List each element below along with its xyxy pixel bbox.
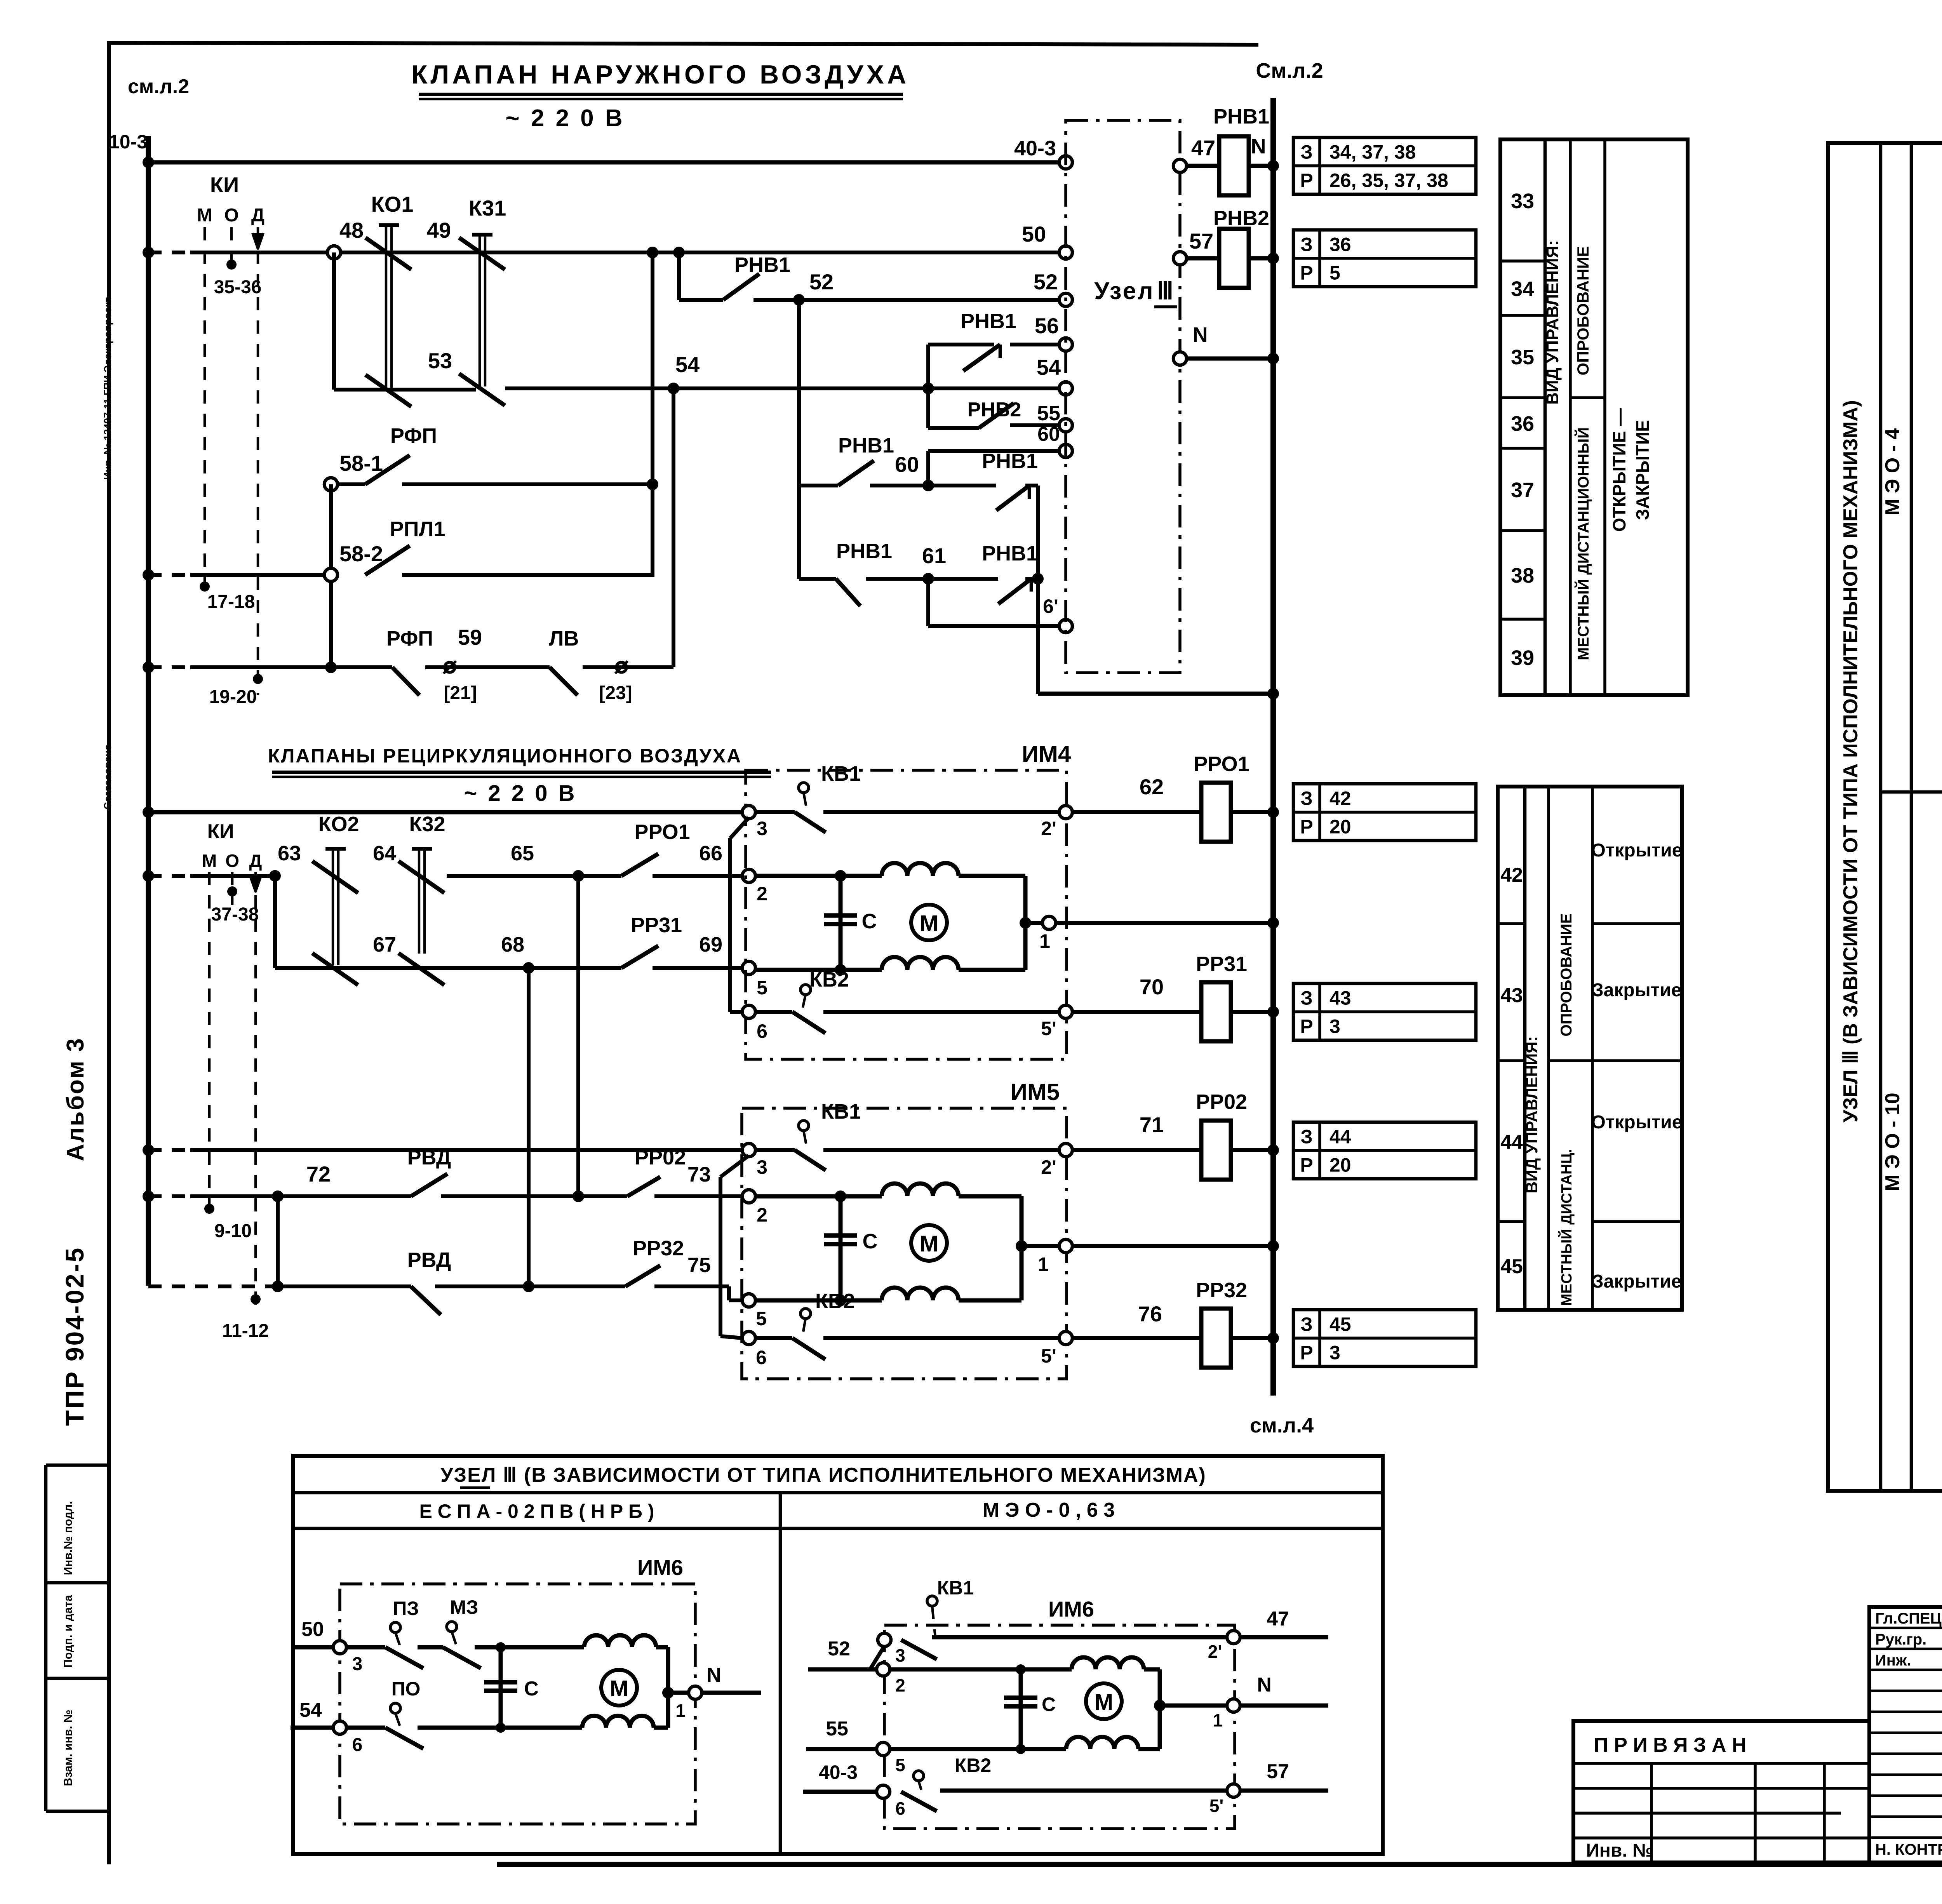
motor М ИМ4: [911, 905, 947, 940]
svg-text:62: 62: [1140, 774, 1164, 799]
signature table frame: [1869, 1607, 1942, 1862]
svg-text:Р: Р: [1300, 170, 1313, 191]
svg-text:МЕСТНЫЙ ДИСТАНЦИОННЫЙ: МЕСТНЫЙ ДИСТАНЦИОННЫЙ: [1574, 427, 1592, 660]
junction 61: [922, 573, 934, 585]
svg-text:2': 2': [1041, 818, 1056, 839]
wire РРЗ1 to trunk: [1231, 1010, 1273, 1014]
svg-text:68: 68: [501, 933, 524, 956]
svg-text:57: 57: [1267, 1760, 1289, 1783]
wire 57 row (МЭО-0,63): [940, 1789, 1227, 1793]
contact ПЗ (ЕСПА): [390, 1622, 400, 1632]
svg-text:Д: Д: [251, 205, 265, 226]
contact РНВ1 (61 left): [836, 579, 860, 606]
contact К32: [412, 847, 432, 851]
contact РНВ2 (55): [979, 403, 1014, 428]
svg-text:20: 20: [1329, 1154, 1351, 1176]
svg-text:КИ: КИ: [207, 820, 234, 843]
svg-text:РНВ1: РНВ1: [836, 540, 892, 563]
svg-text:1: 1: [1039, 930, 1050, 952]
svg-text:О: О: [225, 851, 239, 871]
junction node1b (МЭО-0,63): [1154, 1700, 1166, 1711]
junction 58/59 vertical: [325, 661, 337, 673]
svg-text:54: 54: [675, 352, 700, 377]
svg-text:ИМ6: ИМ6: [1048, 1597, 1094, 1621]
node 1 ИМ5: [1059, 1239, 1072, 1253]
node bus/59: [143, 661, 154, 673]
corner to node1 (ЕСПА): [656, 1645, 668, 1650]
svg-text:З: З: [1300, 141, 1312, 163]
motor М ИМ5: [911, 1225, 947, 1261]
svg-text:З: З: [1300, 1314, 1312, 1335]
svg-text:УЗЕЛ Ⅲ (В ЗАВИСИМОСТИ ОТ ТИПА: УЗЕЛ Ⅲ (В ЗАВИСИМОСТИ ОТ ТИПА ИСПОЛНИТЕЛ…: [1839, 400, 1862, 1123]
node 6 (МЭО-0,63): [877, 1785, 890, 1798]
svg-text:N: N: [1257, 1674, 1272, 1696]
svg-text:70: 70: [1140, 975, 1164, 999]
wire 72 mid: [278, 1194, 411, 1198]
svg-text:РФП: РФП: [386, 627, 433, 650]
contact КВ1 (МЭО-0,63): [927, 1596, 937, 1606]
wire 71 to coil: [1072, 1148, 1202, 1152]
winding upper ИМ5: [882, 1183, 959, 1196]
svg-text:67: 67: [373, 933, 396, 956]
node 5 ИМ5: [742, 1294, 755, 1307]
jumper 3-6 ИМ5 diagonal: [720, 1156, 749, 1177]
svg-text:3: 3: [352, 1654, 363, 1674]
wire row 48-49-50: [148, 251, 190, 254]
contact РНВ1 (56): [963, 345, 1000, 371]
node 40-3 terminal: [1059, 156, 1072, 169]
wire row2 ИМ5 winding: [755, 1194, 840, 1199]
svg-text:50: 50: [1022, 222, 1046, 246]
svg-text:Альбом 3: Альбом 3: [62, 1037, 89, 1161]
svg-text:35: 35: [1511, 346, 1534, 369]
svg-text:55: 55: [1037, 402, 1060, 425]
table1 column 3 line: [1603, 139, 1606, 695]
svg-text:КВ2: КВ2: [955, 1754, 991, 1776]
ИМ4 dash-dot box: [746, 770, 1067, 1059]
svg-text:N: N: [706, 1664, 721, 1686]
node 3 ИМ4: [742, 806, 755, 819]
arrow on Д column 2: [250, 876, 261, 891]
wire node1 ИМ5: [1021, 1244, 1059, 1248]
svg-text:48: 48: [339, 218, 364, 242]
wire 61 mid: [866, 577, 928, 581]
svg-text:65: 65: [511, 842, 534, 865]
svg-text:С: С: [524, 1678, 539, 1700]
contact КО2: [325, 847, 346, 851]
contact ПО (ЕСПА): [390, 1703, 400, 1713]
svg-text:КЛАПАН НАРУЖНОГО ВОЗДУХА: КЛАПАН НАРУЖНОГО ВОЗДУХА: [411, 60, 909, 89]
svg-text:КВ2: КВ2: [815, 1290, 855, 1313]
vertical 65 down to 72 row: [576, 876, 580, 1196]
svg-text:57: 57: [1189, 229, 1213, 253]
wire 47 row (МЭО-0,63): [932, 1635, 1234, 1639]
junction cap top (ЕСПА): [496, 1642, 506, 1652]
wire 58-1 to vert: [402, 482, 653, 486]
node 5 ИМ4: [742, 961, 755, 975]
svg-text:П Р И В Я З А Н: П Р И В Я З А Н: [1594, 1734, 1746, 1756]
svg-text:РР02: РР02: [1196, 1090, 1247, 1114]
svg-text:З: З: [1300, 788, 1312, 809]
node bus/220V: [143, 806, 154, 818]
table1 col3 divider: [1570, 396, 1605, 399]
wire 220V bus to ИМ4 pin3: [148, 810, 742, 815]
junction cap bottom (ЕСПА): [496, 1723, 506, 1733]
contact РФП (59): [392, 667, 419, 695]
svg-text:РВД: РВД: [407, 1248, 451, 1272]
title underline 2: [272, 771, 771, 774]
junction 60: [922, 480, 934, 491]
node 58-2 terminal: [324, 568, 338, 581]
svg-text:49: 49: [427, 218, 451, 242]
svg-text:36: 36: [1511, 412, 1534, 435]
wire 71 row: [148, 1148, 190, 1152]
coil РРЗ1: [1201, 982, 1231, 1041]
contact КО1: [379, 223, 399, 227]
svg-text:КО1: КО1: [371, 192, 414, 216]
wire row5 ИМ5 winding: [755, 1298, 840, 1303]
svg-text:К32: К32: [409, 813, 445, 836]
junction 58-1: [647, 479, 658, 490]
wire 59 РФП row: [148, 665, 190, 669]
node 55 terminal: [1059, 419, 1072, 432]
junction 1/trunk ИМ4: [1267, 917, 1279, 929]
junction 68: [523, 962, 534, 974]
node 56 terminal: [1059, 338, 1072, 351]
svg-text:С: С: [862, 910, 877, 933]
svg-text:ЗАКРЫТИЕ: ЗАКРЫТИЕ: [1632, 420, 1653, 520]
svg-text:М: М: [610, 1676, 628, 1701]
right box column 3: [1910, 143, 1913, 1491]
МЭО-0,63 ИМ6 dash-dot box: [884, 1625, 1235, 1829]
svg-text:56: 56: [1035, 313, 1059, 338]
wire 72 row: [148, 1194, 190, 1198]
wire 65: [447, 874, 621, 878]
connector [23]: [616, 662, 626, 672]
vertical 61 to 6' row: [926, 579, 930, 626]
svg-text:Р: Р: [1300, 262, 1313, 284]
svg-text:3: 3: [895, 1645, 905, 1666]
wire 59 right: [583, 665, 673, 669]
border frame left edge: [107, 41, 111, 1864]
svg-text:44: 44: [1329, 1126, 1351, 1148]
svg-text:33: 33: [1511, 190, 1534, 213]
wire 75 mid: [278, 1284, 411, 1288]
left margin small box: [46, 1464, 108, 1467]
svg-text:Рук.гр.: Рук.гр.: [1875, 1631, 1926, 1648]
wire 70 row: [823, 1010, 1066, 1014]
svg-text:Открытие: Открытие: [1591, 1112, 1683, 1133]
svg-text:Е С П А - 0 2 П В ( Н Р Б ): Е С П А - 0 2 П В ( Н Р Б ): [419, 1500, 654, 1522]
junction 75/vert68: [523, 1281, 534, 1292]
svg-text:К31: К31: [469, 196, 506, 220]
svg-text:6: 6: [352, 1735, 363, 1755]
КИ2 column М dashed: [208, 872, 211, 1220]
svg-text:44: 44: [1500, 1131, 1523, 1154]
svg-text:Инв.№ подл.: Инв.№ подл.: [62, 1501, 75, 1575]
svg-text:3: 3: [757, 1156, 767, 1178]
wire 6' row: [928, 624, 1066, 628]
wire 75 to РРЗ2: [529, 1284, 625, 1288]
svg-text:39: 39: [1511, 646, 1534, 670]
contact ЛВ: [550, 667, 578, 695]
wire РРЗ2 to trunk: [1231, 1336, 1273, 1340]
svg-text:Инв. №: Инв. №: [1586, 1840, 1653, 1861]
КИ contact column О dashed: [230, 227, 233, 272]
node bus/71: [143, 1144, 154, 1156]
svg-text:РР31: РР31: [631, 914, 682, 937]
wire РРО1 to trunk: [1231, 810, 1273, 814]
motor М (ЕСПА): [601, 1670, 637, 1706]
svg-text:Закрытие: Закрытие: [1592, 1271, 1682, 1292]
right box Узел III frame: [1828, 143, 1942, 1491]
svg-text:58-2: 58-2: [339, 541, 383, 566]
svg-text:Р: Р: [1300, 816, 1313, 838]
svg-text:Ⅲ: Ⅲ: [1157, 278, 1174, 305]
node 9-10 tap: [204, 1204, 214, 1214]
svg-text:ВИД УПРАВЛЕНИЯ:: ВИД УПРАВЛЕНИЯ:: [1523, 1036, 1541, 1194]
svg-text:Открытие: Открытие: [1591, 840, 1683, 861]
wire 60 to corner: [1025, 484, 1038, 487]
svg-text:ИМ5: ИМ5: [1011, 1079, 1060, 1105]
svg-text:Инв. № 12497-11 ГПИ Электропр: Инв. № 12497-11 ГПИ Электропроект: [102, 297, 113, 480]
svg-text:43: 43: [1500, 984, 1523, 1007]
svg-text:61: 61: [922, 543, 946, 568]
junction loop/trunk: [1267, 688, 1279, 700]
contact РНВ1 (60 right): [996, 486, 1029, 510]
ИМ5 dash-dot box: [742, 1108, 1067, 1379]
contact РРЗ2 (75): [625, 1265, 660, 1286]
wire 47 row: [1173, 159, 1187, 172]
wire N row (МЭО-0,63): [1160, 1704, 1227, 1708]
wire 61 row: [799, 577, 836, 581]
contact РРЗ1: [621, 946, 658, 968]
wire row5 (МЭО-0,63): [890, 1747, 1021, 1751]
wire 71 row to 2': [823, 1148, 1066, 1152]
junction 54/vert-B: [668, 383, 679, 394]
right box column 2: [1879, 143, 1883, 1491]
svg-text:2': 2': [1208, 1641, 1222, 1662]
svg-text:Инж.: Инж.: [1875, 1652, 1911, 1669]
svg-text:КО2: КО2: [318, 813, 359, 836]
contact КЗ1: [472, 233, 492, 237]
svg-text:5: 5: [1329, 262, 1340, 284]
capacitor C ИМ5: [839, 1196, 843, 1300]
node 5' ИМ5: [1059, 1331, 1072, 1345]
svg-text:37: 37: [1511, 479, 1534, 502]
svg-text:~ 2 2 0 В: ~ 2 2 0 В: [505, 105, 625, 132]
vertical 56-54 link: [926, 345, 930, 428]
junction 62/trunk: [1267, 806, 1279, 818]
svg-text:РНВ1: РНВ1: [982, 449, 1038, 473]
svg-text:1: 1: [1213, 1710, 1223, 1730]
left bus vertical: [146, 136, 151, 1286]
signature table rows: [1869, 1627, 1942, 1629]
ЕСПА ИМ6 dash-dot box: [340, 1584, 695, 1824]
wire 58-2 РПЛ1 row: [148, 573, 190, 577]
svg-text:26, 35, 37, 38: 26, 35, 37, 38: [1329, 170, 1448, 191]
jumper 52-3 (МЭО-0,63): [870, 1646, 884, 1669]
svg-text:ИМ6: ИМ6: [637, 1555, 683, 1580]
svg-text:6: 6: [756, 1347, 767, 1368]
junction cap bottom ИМ4: [835, 964, 846, 976]
wire 61 to corner: [1025, 577, 1038, 581]
vertical 68 down to 75 row: [527, 968, 531, 1286]
svg-text:см.л.2: см.л.2: [128, 75, 189, 98]
winding upper ИМ4: [882, 863, 959, 876]
wire to cap (ЕСПА): [475, 1645, 501, 1650]
svg-text:~ 2 2 0 В: ~ 2 2 0 В: [464, 781, 577, 806]
connector [21]: [445, 662, 455, 672]
svg-text:С: С: [1042, 1693, 1056, 1715]
title underline: [419, 93, 903, 96]
wire row6 (ЕСПА): [346, 1726, 385, 1730]
node 6' terminal: [1059, 620, 1072, 633]
wire row6 mid (ЕСПА): [418, 1726, 501, 1730]
contact КВ2 ИМ4: [800, 985, 811, 995]
node 11-12 tap: [251, 1294, 261, 1304]
corner node1 (МЭО-0,63): [1158, 1669, 1162, 1749]
wire 60 lower row: [799, 484, 838, 487]
jumper 3-6 ИМ4 diagonal: [730, 818, 749, 838]
wire 73: [654, 1194, 742, 1198]
node 3 ИМ5: [742, 1143, 755, 1157]
node 2 ИМ4: [742, 869, 755, 882]
node 2' ИМ5: [1059, 1143, 1072, 1157]
node 5' ИМ4: [1059, 1005, 1072, 1018]
junction cap top ИМ5: [835, 1190, 846, 1202]
junction 72/vert65: [573, 1190, 584, 1202]
svg-text:ОПРОБОВАНИЕ: ОПРОБОВАНИЕ: [1574, 246, 1592, 376]
svg-text:55: 55: [826, 1718, 848, 1740]
svg-text:76: 76: [1138, 1302, 1162, 1326]
svg-text:54: 54: [1037, 355, 1061, 379]
svg-text:36: 36: [1329, 234, 1351, 256]
cross-ref table З 42: [1293, 784, 1476, 841]
svg-text:РФП: РФП: [390, 424, 437, 447]
table1 column 2 line: [1569, 139, 1572, 695]
svg-text:С: С: [863, 1230, 878, 1253]
capacitor C (МЭО-0,63): [1019, 1669, 1023, 1749]
N trunk vertical: [1270, 98, 1276, 1396]
bottom-left box header divider 2: [293, 1527, 1383, 1530]
table2 col4 row dividers: [1592, 922, 1682, 925]
junction 52/vert-C: [793, 294, 805, 306]
svg-text:М: М: [920, 911, 938, 936]
svg-text:См.л.2: См.л.2: [1256, 59, 1323, 82]
junction 47/trunk: [1267, 160, 1279, 172]
svg-text:2': 2': [1041, 1156, 1056, 1178]
svg-text:ТПР 904-02-5: ТПР 904-02-5: [60, 1246, 89, 1426]
contact РПЛ1: [365, 546, 410, 575]
svg-text:1: 1: [675, 1700, 686, 1721]
node 35-36 tap on О: [226, 259, 237, 270]
svg-text:З: З: [1300, 234, 1312, 256]
svg-text:КЛАПАНЫ РЕЦИРКУЛЯЦИОННОГО ВОЗД: КЛАПАНЫ РЕЦИРКУЛЯЦИОННОГО ВОЗДУХА: [268, 745, 742, 767]
wire 52 row with РНВ1 contact: [679, 298, 723, 302]
wire 75 right: [654, 1284, 729, 1288]
svg-text:40-3: 40-3: [819, 1761, 858, 1783]
svg-text:17-18: 17-18: [207, 592, 255, 612]
svg-text:Подп. и дата: Подп. и дата: [62, 1595, 75, 1668]
vertical 54-to-59 row: [672, 388, 675, 667]
svg-text:58-1: 58-1: [339, 451, 383, 475]
node bus/40-3: [143, 157, 154, 168]
junction N/trunk: [1267, 353, 1279, 364]
junction 71/trunk: [1267, 1144, 1279, 1156]
table2 column 3 line: [1591, 787, 1594, 1310]
svg-text:N: N: [1251, 135, 1266, 158]
contact РВД (75): [411, 1286, 441, 1315]
node bus/72: [143, 1190, 154, 1202]
svg-text:М: М: [202, 851, 217, 871]
svg-text:20: 20: [1329, 816, 1351, 838]
svg-text:[23]: [23]: [599, 683, 632, 703]
winding lower (МЭО-0,63): [1021, 1747, 1066, 1751]
vertical 60-61-loop: [1036, 486, 1040, 694]
svg-text:РР02: РР02: [635, 1146, 686, 1169]
svg-text:РНВ2: РНВ2: [1213, 207, 1269, 230]
vertical 72-75 link: [276, 1196, 280, 1286]
jumper 3-6 ИМ5 vertical: [719, 1177, 722, 1336]
winding upper (ЕСПА): [584, 1635, 656, 1647]
svg-text:ПО: ПО: [392, 1678, 421, 1700]
КИ2 column О dashed: [231, 872, 234, 905]
svg-text:64: 64: [373, 842, 396, 865]
table2 numbers column: [1523, 787, 1527, 1310]
wire row2 (МЭО-0,63): [890, 1667, 1021, 1672]
wire N row: [1173, 352, 1187, 365]
svg-text:МЕСТНЫЙ ДИСТАНЦ.: МЕСТНЫЙ ДИСТАНЦ.: [1557, 1149, 1575, 1306]
Привязан grid: [1573, 1762, 1869, 1765]
junction 61/corner: [1032, 573, 1044, 585]
contact РНВ1 (61 right): [998, 579, 1031, 604]
wire 59 mid: [425, 665, 550, 669]
svg-text:Взам. инв. №: Взам. инв. №: [62, 1710, 75, 1786]
junction cap bottom ИМ5: [835, 1295, 846, 1306]
wire 48 to КО1: [341, 251, 563, 254]
node 19-20 tap on Д: [253, 674, 263, 684]
svg-text:ВИД УПРАВЛЕНИЯ:: ВИД УПРАВЛЕНИЯ:: [1543, 240, 1562, 405]
border frame bottom edge: [497, 1862, 1942, 1867]
cross-ref table З 45: [1293, 1310, 1476, 1366]
svg-text:РНВ1: РНВ1: [982, 542, 1038, 565]
node 50 terminal on Узел III: [1059, 246, 1072, 259]
svg-text:5': 5': [1041, 1345, 1056, 1367]
svg-text:52: 52: [809, 270, 834, 294]
wire 66: [653, 874, 742, 878]
svg-text:43: 43: [1329, 987, 1351, 1009]
wire 53 row: [332, 252, 336, 390]
wire 56 row: [928, 343, 994, 346]
svg-text:МЗ: МЗ: [450, 1596, 479, 1618]
svg-text:М: М: [920, 1231, 938, 1257]
winding lower ИМ4: [882, 957, 959, 970]
svg-text:М Э О - 10: М Э О - 10: [1881, 1093, 1904, 1191]
junction 75: [272, 1281, 284, 1292]
svg-text:М Э О - 0 , 6 3: М Э О - 0 , 6 3: [983, 1499, 1115, 1521]
junction node1 ИМ5: [1016, 1240, 1027, 1252]
svg-text:РНВ1: РНВ1: [961, 310, 1016, 333]
svg-text:Гл.СПЕЦ.: Гл.СПЕЦ.: [1875, 1610, 1942, 1627]
svg-text:2: 2: [757, 883, 767, 905]
junction cap top ИМ4: [835, 870, 846, 882]
svg-text:73: 73: [687, 1163, 711, 1186]
svg-text:УЗЕЛ Ⅲ (В ЗАВИСИМОСТИ ОТ ТИПА: УЗЕЛ Ⅲ (В ЗАВИСИМОСТИ ОТ ТИПА ИСПОЛНИТЕЛ…: [440, 1464, 1206, 1486]
Привязан box frame: [1573, 1721, 1869, 1862]
wire РРО2 to trunk: [1231, 1148, 1273, 1152]
coil РНВ2: [1219, 229, 1249, 288]
